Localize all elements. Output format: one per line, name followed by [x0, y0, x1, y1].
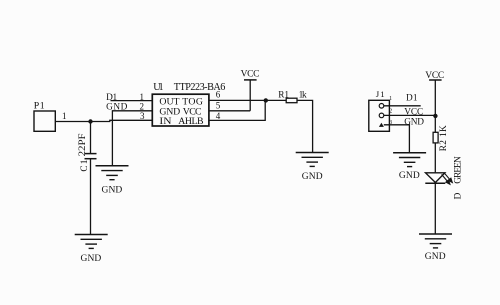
svg-text:2: 2 [140, 101, 145, 111]
svg-text:3: 3 [140, 111, 145, 121]
svg-text:D1: D1 [406, 94, 418, 104]
svg-text:GND: GND [81, 254, 102, 264]
svg-text:U1: U1 [153, 82, 163, 93]
svg-text:C1: C1 [80, 159, 90, 171]
svg-text:J1: J1 [376, 89, 385, 99]
svg-text:GND: GND [106, 103, 127, 113]
svg-text:VCC: VCC [241, 70, 260, 80]
svg-text:1: 1 [389, 96, 392, 102]
svg-text:6: 6 [216, 90, 221, 100]
svg-text:1k: 1k [299, 91, 307, 101]
svg-text:GND: GND [425, 252, 446, 262]
svg-text:4: 4 [216, 111, 221, 121]
svg-text:GREEN: GREEN [453, 156, 463, 184]
svg-text:5: 5 [216, 100, 221, 110]
svg-text:VCC: VCC [425, 71, 444, 81]
svg-text:1: 1 [140, 92, 145, 102]
svg-text:IN: IN [159, 116, 171, 127]
svg-text:D: D [453, 192, 463, 199]
svg-text:2: 2 [389, 109, 392, 115]
svg-text:R2 1K: R2 1K [439, 125, 449, 151]
svg-text:VCC: VCC [404, 108, 423, 118]
svg-text:GND: GND [399, 171, 420, 181]
svg-text:GND: GND [102, 185, 123, 195]
svg-text:3: 3 [389, 120, 392, 126]
svg-text:AHLB: AHLB [178, 116, 204, 127]
svg-text:1: 1 [62, 111, 67, 121]
svg-text:GND: GND [302, 172, 323, 182]
svg-text:R1: R1 [278, 91, 289, 101]
svg-text:D1: D1 [106, 93, 117, 103]
svg-text:GND: GND [404, 117, 424, 127]
svg-text:P1: P1 [34, 100, 45, 111]
svg-text:22PF: 22PF [78, 133, 88, 156]
